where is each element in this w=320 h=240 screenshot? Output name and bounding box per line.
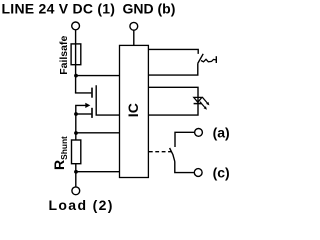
node junction dot2 bbox=[74, 112, 78, 116]
LED D1 wire through symbol bbox=[197, 97, 199, 103]
wire LINE terminal down through fuse to MOSFET drain corner bbox=[75, 30, 77, 93]
wire dot2 down to shunt bbox=[75, 114, 77, 140]
svg-text:IC: IC bbox=[125, 103, 141, 117]
terminal 2 Load bbox=[72, 187, 80, 195]
terminal a bbox=[195, 129, 203, 137]
transistor Q1 MOSFET drain lead bbox=[75, 92, 91, 94]
transistor Q1 source contact bar bbox=[91, 108, 93, 118]
svg-text:(a): (a) bbox=[213, 125, 230, 141]
wire shunt bottom to Load terminal bbox=[75, 164, 77, 187]
transistor Q1 gate plate and gate wire to IC bbox=[96, 85, 119, 115]
transistor Q1 body arrow lead bbox=[76, 105, 87, 114]
transistor Q1 drain contact bar bbox=[91, 88, 93, 98]
resistor R_Shunt bbox=[72, 140, 81, 164]
LED D1 emission arrow 2 bbox=[200, 102, 205, 108]
switch S1 end stop bar bbox=[215, 56, 217, 63]
node junction dot1 bbox=[74, 74, 78, 78]
LED D1 cathode bar bbox=[194, 103, 202, 105]
LED D1 triangle bbox=[194, 97, 202, 102]
switch S1 blade bbox=[198, 54, 203, 64]
wire GND terminal to IC top bbox=[133, 30, 135, 45]
svg-text:GND (b): GND (b) bbox=[123, 1, 176, 17]
node junction dot3 bbox=[74, 131, 78, 135]
wire mechanical link dashed IC to switch S2 bbox=[149, 151, 172, 153]
wire terminal a to switch S2 upper contact bbox=[175, 132, 194, 147]
wire dot1 to IC bbox=[76, 75, 120, 77]
wire IC pin to switch S1 fixed contact bbox=[148, 49, 198, 54]
switch S2 blade bbox=[170, 148, 175, 162]
wire switch S2 lower contact to terminal c bbox=[175, 162, 194, 173]
terminal b GND bbox=[130, 22, 138, 30]
terminal c bbox=[194, 169, 202, 177]
transistor Q1 body arrowhead bbox=[85, 103, 90, 108]
wire dot3 to IC (shunt top sense) bbox=[76, 132, 120, 134]
IC U1 control block body bbox=[120, 45, 149, 177]
wire dot4 to IC (shunt bottom sense) bbox=[76, 171, 120, 173]
wire IC pin to switch S1 blade riser bbox=[148, 63, 197, 75]
node junction dot4 bbox=[74, 170, 78, 174]
terminal 1 LINE bbox=[72, 22, 80, 30]
svg-text:Load (2): Load (2) bbox=[49, 197, 114, 213]
wire source lead bbox=[76, 113, 92, 115]
svg-text:LINE 24 V DC (1): LINE 24 V DC (1) bbox=[2, 1, 116, 17]
wire IC pin to LED anode bbox=[148, 87, 198, 97]
svg-text:(c): (c) bbox=[213, 165, 230, 181]
LED D1 emission arrow 1 bbox=[202, 97, 207, 103]
switch S1 spring zigzag bbox=[201, 59, 216, 62]
wire LED cathode back to IC bbox=[148, 104, 198, 116]
svg-text:Failsafe: Failsafe bbox=[58, 36, 70, 75]
fuse F1 Failsafe bbox=[71, 44, 81, 65]
